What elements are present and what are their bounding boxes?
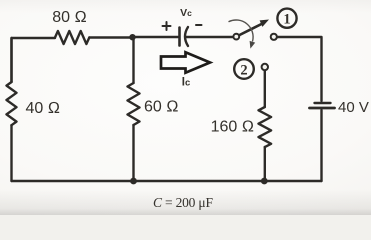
wire middle branch lower — [132, 125, 134, 181]
wire from 80ohm to node A — [89, 36, 132, 38]
wire node A to capacitor — [133, 36, 179, 38]
switch motion arc — [229, 20, 256, 49]
wire capacitor to switch pole — [186, 36, 234, 38]
node 1 terminal circle — [271, 34, 277, 40]
resistor 40ohm zigzag — [7, 82, 17, 125]
capacitor C left plate — [178, 28, 181, 46]
wire node2 down to 160ohm — [264, 71, 266, 108]
wire bottom rail — [12, 180, 322, 182]
label plus sign — [163, 22, 171, 30]
node 2 terminal circle — [262, 64, 268, 70]
battery 40V top plate — [315, 102, 331, 104]
switch pole terminal circle — [233, 34, 239, 40]
wire left branch lower — [10, 125, 12, 181]
wire node1 to battery top — [277, 37, 322, 101]
svg-text:1: 1 — [283, 11, 290, 27]
resistor 60ohm zigzag — [128, 83, 140, 125]
junction node A top — [129, 34, 135, 40]
current arrow Ic hollow — [161, 52, 210, 72]
battery 40V bottom plate — [310, 107, 335, 110]
svg-text:2: 2 — [240, 62, 247, 78]
svg-text:40 Ω: 40 Ω — [26, 100, 61, 117]
resistor 160ohm zigzag — [259, 107, 272, 147]
capacitor C right curved plate — [185, 27, 188, 46]
wire 160ohm to bottom rail — [264, 147, 266, 181]
wire middle branch upper — [132, 38, 134, 83]
node 2 label circled 2 — [234, 59, 254, 79]
svg-text:Vc: Vc — [180, 7, 192, 19]
node 1 label circled 1 — [277, 9, 296, 28]
svg-text:60 Ω: 60 Ω — [144, 99, 179, 116]
wire battery bottom to rail — [320, 110, 322, 181]
svg-text:40 V: 40 V — [338, 99, 369, 116]
svg-text:Ic: Ic — [182, 77, 191, 89]
switch S arm — [239, 20, 270, 36]
junction node bottom-right — [261, 178, 268, 185]
resistor 80ohm zigzag — [55, 31, 89, 44]
label minus sign — [196, 24, 202, 26]
wire left branch down — [10, 38, 12, 82]
junction node bottom-middle — [130, 178, 137, 185]
svg-text:80 Ω: 80 Ω — [52, 9, 87, 26]
svg-text:C = 200 μF: C = 200 μF — [153, 195, 213, 210]
svg-text:160 Ω: 160 Ω — [211, 119, 254, 136]
wire top-left rail — [12, 38, 56, 82]
